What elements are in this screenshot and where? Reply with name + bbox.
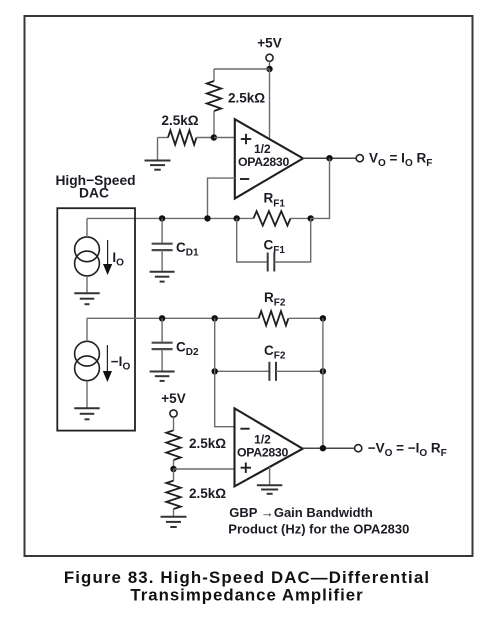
wire U1A output [303,157,359,159]
wire -IO source to ground [86,381,88,408]
wire R2 to ground [157,138,159,161]
junction RF1 right node [308,215,314,221]
ground (CD1) [150,272,175,282]
svg-text:2.5kΩ: 2.5kΩ [162,113,199,128]
terminal VO output [356,155,363,162]
wire U1A output to feedback [311,158,330,218]
label High-Speed DAC [55,173,135,201]
op-amp U1A 1/2 OPA2830 [235,119,303,198]
value 2.5k&#937; (R1) [228,91,265,106]
wire U1A inverting input to feedback node [208,178,235,218]
power +5V label (bottom) [161,391,185,406]
junction CF2 right bottom node [320,368,326,374]
label CD1 [176,240,199,259]
U2A + input marking [241,463,251,473]
ground (CD2) [150,372,175,381]
label RF2 [264,290,286,309]
junction U1A output node [326,155,332,161]
resistor R1 2.5k (noninverting pull-up) [207,69,221,138]
resistor R4 2.5k (bias lower) [166,469,180,517]
label VO = IO RF [369,151,432,170]
High-Speed DAC box [57,208,135,430]
junction RF2 right node [320,315,326,321]
junction CF1 left node [234,215,240,221]
wire IO source to net [86,218,88,237]
wire +5V terminal to junction [269,61,271,69]
op-amp U2A 1/2 OPA2830 [235,408,303,486]
label -VO = -IO RF [368,441,447,460]
terminal +5V (top) [266,54,273,61]
svg-text:2.5kΩ: 2.5kΩ [189,436,226,451]
wire DAC -Io output net [87,317,259,319]
svg-text:2.5kΩ: 2.5kΩ [189,486,226,501]
power +5V label (top) [257,36,281,51]
label 1/2 (U1A) [254,142,271,156]
resistor R3 2.5k (bias upper) [166,417,180,469]
value 2.5k&#937; (R3) [189,436,226,451]
junction CF2 left node [212,315,218,321]
capacitor CD1 [152,218,173,271]
svg-text:2.5kΩ: 2.5kΩ [228,91,265,106]
svg-text:Product (Hz) for the OPA2830: Product (Hz) for the OPA2830 [228,522,409,537]
wire -IO source to net [86,318,88,341]
label CF2 [264,343,286,362]
arrow -IO direction [103,345,112,382]
wire U2A output [303,447,357,449]
label RF1 [264,191,286,210]
wire DAC Io output net [87,217,254,219]
svg-text:1/2: 1/2 [254,142,271,156]
junction CF2 left bottom node [212,368,218,374]
junction CD1 tap [159,215,165,221]
resistor RF1 [254,211,291,225]
label CD2 [176,340,199,359]
svg-text:OPA2830: OPA2830 [237,446,288,460]
terminal +5V (bottom) [170,410,177,417]
wire IO source to ground [86,276,88,293]
current source IO (upper) [75,237,100,276]
ground (-IO source) [74,408,99,419]
junction +5V node [266,66,272,72]
value 2.5k&#937; (R4) [189,486,226,501]
svg-text:Transimpedance Amplifier: Transimpedance Amplifier [130,586,363,605]
U1A - input marking [240,178,249,180]
junction noninverting input node U1A [211,134,217,140]
value 2.5k&#937; (R2) [162,113,199,128]
resistor RF2 [259,311,289,325]
label OPA2830 (U2A) [237,446,288,460]
U2A - input marking [240,428,249,430]
ground (U2A) [257,485,282,494]
wire bias node to U2A + input [174,468,235,470]
wire +5V node to R1 top [214,68,270,70]
capacitor CF1 (parallel loop) [237,218,311,271]
wire RF1 right lead [291,217,311,219]
ground (bias chain) [161,517,187,527]
svg-text:+5V: +5V [257,36,281,51]
wire U2A ground pin [269,467,271,485]
svg-text:Figure 83. High-Speed DAC—Diff: Figure 83. High-Speed DAC—Differential [64,568,430,587]
junction U2A noninverting bias node [170,466,176,472]
U1A + input marking [241,134,251,144]
ground (IO source) [74,293,99,304]
label IO [112,250,124,269]
junction CD2 tap [159,315,165,321]
wire RF2 right lead [288,317,323,319]
note GBP gain bandwidth [228,505,409,537]
wire to U1A + input [214,137,235,139]
label 1/2 (U2A) [254,433,271,447]
resistor R2 2.5k (noninverting to ground) [158,130,214,144]
ground (R2) [145,161,171,170]
capacitor CD2 [152,318,173,371]
label -IO [111,354,131,373]
label CF1 [264,238,286,257]
svg-text:1/2: 1/2 [254,433,271,447]
wire CF2 left vertical to U2A inverting input [215,318,235,426]
capacitor CF2 [215,362,323,381]
svg-text:DAC: DAC [79,186,109,201]
arrow IO direction [103,240,112,275]
svg-text:+5V: +5V [161,391,185,406]
current source -IO (lower) [75,341,100,380]
junction inverting feedback tap [204,215,210,221]
terminal -VO output [355,445,362,452]
junction U2A output node [320,445,326,451]
label OPA2830 (U1A) [238,155,289,169]
wire output feedback vertical (right) [322,318,324,448]
wire +5V node to U1A supply pin [269,69,271,140]
svg-text:OPA2830: OPA2830 [238,155,289,169]
svg-text:GBP →Gain Bandwidth: GBP →Gain Bandwidth [229,505,373,520]
